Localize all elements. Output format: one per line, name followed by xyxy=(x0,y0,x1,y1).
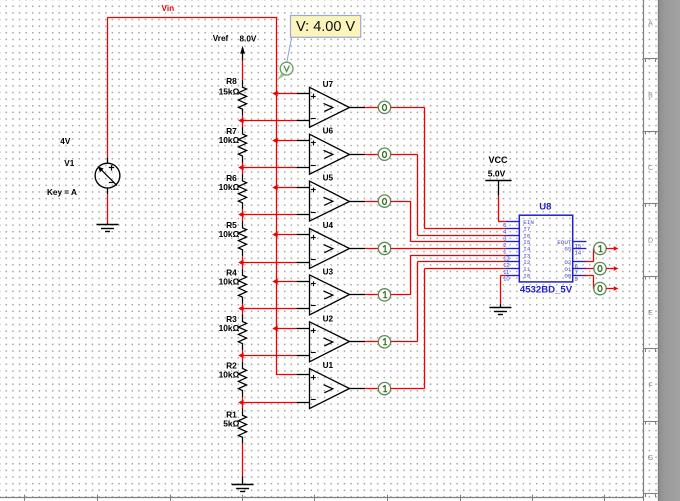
svg-text:GS: GS xyxy=(564,246,572,253)
wire ladder node to U7 minus xyxy=(242,120,297,122)
wire U8 I0 to ground xyxy=(500,275,505,277)
op-amp comparator U5 xyxy=(297,187,310,189)
pin 5 EIN of U8 xyxy=(506,221,520,223)
svg-text:O0: O0 xyxy=(564,272,572,279)
svg-text:14: 14 xyxy=(575,251,582,257)
probe value box xyxy=(291,16,361,38)
svg-text:10kΩ: 10kΩ xyxy=(219,182,240,192)
wire U7 output to indicator xyxy=(365,107,378,109)
pin 9 O0 of U8 xyxy=(573,275,587,277)
wire Vin tap to U6 plus xyxy=(276,140,297,142)
svg-text:10kΩ: 10kΩ xyxy=(219,276,240,286)
indicator probe U5 out xyxy=(378,195,390,207)
wire U4 output to indicator xyxy=(365,248,378,250)
pin 13 I3 of U8 xyxy=(506,255,520,257)
svg-text:U2: U2 xyxy=(323,314,334,323)
VCC power symbol xyxy=(485,180,511,182)
pin 11 I1 of U8 xyxy=(506,268,520,270)
junction ladder U7 xyxy=(238,118,243,124)
junction Vin U7 xyxy=(272,91,277,97)
svg-text:15kΩ: 15kΩ xyxy=(219,87,240,97)
IC U8 body xyxy=(519,215,572,282)
svg-text:U5: U5 xyxy=(323,174,334,183)
wire U3 to U8 xyxy=(391,294,411,296)
wire U6 to U8 xyxy=(391,154,418,156)
wire stub O2 indicator xyxy=(606,248,613,250)
probe leader line xyxy=(287,38,292,63)
wire Vin corner to U1 plus xyxy=(276,373,278,376)
resistor R1 xyxy=(238,409,246,444)
wire U3 output to indicator xyxy=(365,294,378,296)
pin 14 GS of U8 xyxy=(573,248,587,250)
junction Vin U5 xyxy=(272,185,277,191)
svg-text:D: D xyxy=(648,238,653,245)
wire Vin tap to U7 plus xyxy=(276,93,297,95)
wire Vref to R8 xyxy=(242,61,244,81)
junction ladder U1 xyxy=(238,400,243,406)
resistor R8 xyxy=(238,80,246,115)
junction Vin U4 xyxy=(272,232,277,238)
svg-text:5.0V: 5.0V xyxy=(488,168,506,178)
svg-text:B: B xyxy=(648,93,653,100)
op-amp comparator U3 xyxy=(297,281,310,283)
resistor R4 xyxy=(238,268,246,303)
svg-text:Vref: Vref xyxy=(213,34,229,43)
svg-text:10kΩ: 10kΩ xyxy=(219,135,240,145)
ground V1 xyxy=(97,224,119,226)
wire stub O0 indicator xyxy=(606,288,613,290)
desktop gray area xyxy=(658,0,680,501)
resistor R3 xyxy=(238,315,246,350)
junction Vin U6 xyxy=(272,138,277,144)
resistor R7 xyxy=(238,127,246,162)
wire U7 to U8 xyxy=(391,107,425,109)
op-amp comparator U1 xyxy=(297,374,310,376)
op-amp comparator U7 xyxy=(297,93,310,95)
indicator out O2 xyxy=(594,242,606,254)
wire ladder segment below R4 xyxy=(242,304,244,316)
svg-text:8.0V: 8.0V xyxy=(240,34,257,43)
indicator out O0 xyxy=(594,282,606,294)
wire ladder node to U6 minus xyxy=(242,167,297,169)
wire Vin top horizontal xyxy=(108,17,278,19)
wire stub O1 indicator xyxy=(606,268,613,270)
pin 15 EOUT of U8 xyxy=(573,241,587,243)
resistor R2 xyxy=(238,362,246,397)
wire ladder node to U5 minus xyxy=(242,214,297,216)
wire Vin tap to U2 plus xyxy=(276,328,297,330)
junction ladder U5 xyxy=(238,212,243,218)
wire ladder node to U2 minus xyxy=(242,355,297,357)
pin 7 O1 of U8 xyxy=(573,268,587,270)
svg-text:U7: U7 xyxy=(323,80,334,89)
wire U1 output to indicator xyxy=(365,388,378,390)
wire ladder segment below R3 xyxy=(242,350,244,362)
wire VCC to U8 EIN xyxy=(498,196,500,222)
wire Vin tap to U5 plus xyxy=(276,187,297,189)
wire V1 top vertical xyxy=(107,18,109,158)
wire O0 to indicator xyxy=(585,275,593,277)
pin 12 I2 of U8 xyxy=(506,261,520,263)
junction Vin U2 xyxy=(272,326,277,332)
wire Vin vertical bus xyxy=(276,18,278,375)
pin 4 I7 of U8 xyxy=(506,228,520,230)
junction ladder U6 xyxy=(238,165,243,171)
svg-text:C: C xyxy=(648,165,653,172)
svg-text:I0: I0 xyxy=(523,272,531,279)
svg-text:4532BD_5V: 4532BD_5V xyxy=(520,285,573,296)
op-amp comparator U6 xyxy=(297,140,310,142)
junction ladder U4 xyxy=(238,260,243,266)
wire O2 to indicator xyxy=(585,261,593,263)
svg-text:V: 4.00 V: V: 4.00 V xyxy=(296,19,355,35)
wire ladder segment below R5 xyxy=(242,256,244,268)
junction Vin U3 xyxy=(272,279,277,285)
svg-text:U1: U1 xyxy=(323,361,334,370)
svg-text:VCC: VCC xyxy=(488,155,508,165)
svg-text:10kΩ: 10kΩ xyxy=(219,229,240,239)
pin 10 I0 of U8 xyxy=(506,275,520,277)
svg-text:4V: 4V xyxy=(60,137,71,146)
indicator probe U7 out xyxy=(378,101,390,113)
wire ladder node to U3 minus xyxy=(242,308,297,310)
wire R1 to ground xyxy=(242,444,244,477)
wire U5 to U8 xyxy=(391,201,411,203)
pin 1 I4 of U8 xyxy=(506,248,520,250)
junction ladder U3 xyxy=(238,306,243,312)
svg-text:Vin: Vin xyxy=(162,4,175,13)
wire Vin tap to U3 plus xyxy=(276,281,297,283)
wire V1 bottom xyxy=(107,188,109,194)
ground U8 xyxy=(489,307,511,309)
svg-text:1: 1 xyxy=(503,250,506,256)
op-amp comparator U4 xyxy=(297,234,310,236)
wire U5 output to indicator xyxy=(365,201,378,203)
wire ladder segment below R6 xyxy=(242,209,244,221)
svg-text:9: 9 xyxy=(575,277,578,283)
junction ladder U2 xyxy=(238,353,243,359)
svg-text:U8: U8 xyxy=(539,202,552,213)
svg-text:U6: U6 xyxy=(323,127,334,136)
wire Vin tap to U4 plus xyxy=(276,234,297,236)
svg-text:R8: R8 xyxy=(226,76,237,86)
probe tip xyxy=(277,72,285,80)
svg-text:A: A xyxy=(648,20,653,27)
svg-text:G: G xyxy=(648,455,653,462)
svg-text:E: E xyxy=(648,310,653,317)
wire U2 to U8 xyxy=(391,341,418,343)
sheet border frame xyxy=(643,0,645,501)
op-amp comparator U2 xyxy=(297,328,310,330)
svg-text:U3: U3 xyxy=(323,267,334,276)
svg-text:Key = A: Key = A xyxy=(47,188,77,197)
pin 3 I6 of U8 xyxy=(506,235,520,237)
svg-text:F: F xyxy=(648,383,652,390)
wire V1 top pin stub xyxy=(107,157,109,163)
wire ladder segment below R7 xyxy=(242,163,244,175)
svg-text:10: 10 xyxy=(503,276,509,282)
wire O1 to indicator xyxy=(585,268,594,270)
svg-text:10kΩ: 10kΩ xyxy=(219,323,240,333)
wire ladder segment below R8 xyxy=(242,116,244,128)
wire U1 to U8 xyxy=(391,388,425,390)
Vref arrow xyxy=(242,48,244,61)
wire U6 output to indicator xyxy=(365,154,378,156)
wire ladder segment below R2 xyxy=(242,397,244,409)
indicator out O1 xyxy=(594,262,606,274)
indicator probe U6 out xyxy=(378,148,390,160)
svg-text:5kΩ: 5kΩ xyxy=(223,419,239,429)
svg-text:10kΩ: 10kΩ xyxy=(219,370,240,380)
pin 6 O2 of U8 xyxy=(573,261,587,263)
indicator probe U3 out xyxy=(378,289,390,301)
ground ladder xyxy=(232,484,254,486)
wire ladder node to U1 minus xyxy=(242,402,297,404)
pin 2 I5 of U8 xyxy=(506,241,520,243)
resistor R5 xyxy=(238,221,246,256)
wire U4 to U8 I4 xyxy=(391,248,506,250)
wire U2 output to indicator xyxy=(365,341,378,343)
svg-text:U4: U4 xyxy=(323,221,334,230)
voltage source V1 xyxy=(95,163,120,188)
wire ladder node to U4 minus xyxy=(242,262,297,264)
indicator probe U1 out xyxy=(378,382,390,394)
resistor R6 xyxy=(238,174,246,209)
svg-text:V1: V1 xyxy=(64,159,74,168)
indicator probe U2 out xyxy=(378,336,390,348)
indicator probe U4 out xyxy=(378,242,390,254)
